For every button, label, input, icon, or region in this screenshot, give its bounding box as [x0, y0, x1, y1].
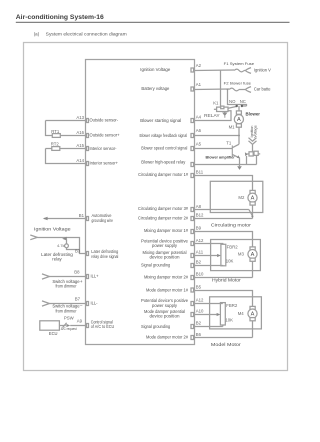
wire B5 to M4 [195, 291, 253, 307]
pin B8 [87, 275, 89, 279]
ignition voltage feed rotated [250, 125, 258, 137]
wire ignition to relay coil K1 [220, 71, 222, 108]
svg-text:ILL+: ILL+ [91, 274, 99, 279]
pin A15 [87, 147, 89, 151]
pin A4 [191, 119, 194, 123]
wire A2 to fuse F1 [195, 69, 235, 72]
svg-text:B8: B8 [74, 269, 80, 274]
hybrid motor box [211, 240, 261, 271]
svg-text:10K: 10K [225, 317, 233, 322]
svg-text:B6: B6 [196, 332, 202, 337]
svg-text:4.7k: 4.7k [57, 243, 65, 248]
wire A12 to pot top [195, 303, 223, 305]
connector to ignition [244, 70, 246, 72]
relay armature blade [228, 106, 237, 108]
pin B6 [191, 336, 194, 340]
svg-text:Blower amplifier: Blower amplifier [206, 155, 236, 160]
title rule [16, 21, 290, 23]
model motor box [210, 297, 262, 329]
title [16, 14, 127, 36]
svg-text:A6: A6 [196, 128, 202, 133]
wire A5 to base [195, 148, 233, 150]
fuse F2 [229, 88, 239, 91]
wire 4.7k to relay line [67, 248, 80, 250]
svg-text:A: A [251, 312, 255, 318]
svg-text:relay drive signal: relay drive signal [91, 254, 118, 259]
pin A1 [191, 87, 194, 91]
svg-text:K1: K1 [213, 101, 219, 106]
emitter to ground [239, 158, 241, 166]
wire ILL+ [49, 276, 85, 278]
svg-text:Interior sensor-: Interior sensor- [90, 146, 118, 151]
arrow on ignition wire [62, 237, 67, 241]
pin B1 [87, 217, 89, 221]
svg-text:10K: 10K [226, 258, 234, 263]
relay contact feed wire [228, 90, 247, 107]
pin B7 [87, 302, 89, 306]
svg-text:(a): (a) [34, 31, 40, 36]
svg-text:A: A [237, 117, 241, 123]
wire B9 to M3 [195, 232, 253, 247]
wire B11 to M2 [195, 176, 253, 191]
wire motor to transistor [238, 127, 240, 144]
svg-text:Voltage: Voltage [254, 125, 258, 137]
svg-text:power supply: power supply [152, 243, 178, 248]
svg-text:A9: A9 [77, 319, 83, 324]
svg-text:A8: A8 [196, 204, 202, 209]
svg-text:A16: A16 [76, 130, 84, 135]
motor M2 [250, 190, 255, 193]
pin B2 mode [191, 325, 194, 329]
svg-text:B12: B12 [196, 213, 204, 218]
wire to contact [252, 144, 254, 151]
wire A10 wiper [195, 314, 217, 316]
motor M3 [250, 247, 255, 250]
high-speed relay contact [247, 153, 260, 155]
wire A13 outside sensor [46, 120, 86, 122]
svg-text:Car batte: Car batte [254, 87, 271, 92]
later defrosting relay label [41, 252, 73, 262]
wire A12 to pot [195, 243, 224, 245]
potentiometer FBR2 mixing [221, 244, 226, 265]
wire M4 to B6 [252, 321, 254, 338]
pin A5 [191, 147, 194, 151]
contact arm arrow [245, 152, 248, 156]
circulating motor box [210, 181, 262, 212]
svg-text:B7: B7 [75, 296, 81, 301]
svg-text:A11: A11 [196, 249, 204, 254]
svg-text:M3: M3 [238, 252, 245, 257]
svg-text:Blower voltage feedback signal: Blower voltage feedback signal [140, 133, 188, 138]
svg-text:of A/C to ECU: of A/C to ECU [91, 324, 114, 329]
svg-text:PSW: PSW [64, 315, 75, 320]
svg-text:Circulating damper motor 3#: Circulating damper motor 3# [138, 206, 189, 211]
pin A6 [191, 134, 194, 138]
wire M2 to B12 [252, 205, 254, 218]
wire B6 [195, 337, 253, 339]
svg-text:Signal grounding: Signal grounding [141, 263, 171, 268]
svg-text:Circulating damper motor 2#: Circulating damper motor 2# [138, 216, 189, 221]
pin B3 [87, 252, 89, 256]
dimmer + source arrow [42, 274, 49, 279]
wire B12 [195, 218, 253, 220]
svg-text:Blower high-speed relay: Blower high-speed relay [141, 159, 186, 164]
svg-text:A14: A14 [76, 158, 84, 163]
svg-text:A4: A4 [196, 115, 202, 120]
svg-text:Ignition Voltage: Ignition Voltage [140, 67, 171, 72]
wire B2 to pot bottom [195, 265, 224, 267]
svg-text:device position: device position [150, 314, 181, 319]
svg-text:M2: M2 [238, 195, 245, 200]
blower motor M1 [238, 106, 240, 111]
svg-text:Mixing damper motor 1#: Mixing damper motor 1# [144, 228, 189, 233]
svg-text:ECU: ECU [49, 331, 58, 336]
svg-text:M4: M4 [238, 311, 245, 316]
fuse F1 [234, 69, 244, 72]
svg-text:Signal grounding: Signal grounding [141, 324, 171, 329]
svg-text:B2: B2 [196, 321, 202, 326]
ignition voltage source arrow [34, 227, 71, 232]
wire PSW to A9 [70, 325, 85, 327]
wire B1 ground [44, 218, 86, 220]
svg-text:RT2: RT2 [51, 142, 60, 147]
svg-text:RELAY: RELAY [204, 113, 220, 118]
pin A8 [191, 208, 194, 212]
wire ignition to later defrost [37, 238, 85, 254]
transistor T1 [226, 140, 232, 145]
contact NC [243, 105, 247, 107]
svg-text:ILL-: ILL- [91, 301, 99, 306]
svg-text:M1: M1 [229, 124, 236, 129]
svg-text:relay: relay [52, 257, 62, 262]
pin A12 [191, 242, 194, 246]
resistor RT1 [52, 134, 60, 138]
pin high-speed relay [191, 163, 194, 167]
svg-text:B3: B3 [75, 248, 81, 253]
svg-text:A12: A12 [196, 238, 204, 243]
svg-text:FBR2: FBR2 [226, 303, 238, 308]
wire B10 [195, 277, 253, 279]
svg-text:Outside sensor-: Outside sensor- [90, 118, 119, 123]
wire A15 interior sensor [46, 148, 86, 150]
svg-text:Blower speed control signal: Blower speed control signal [141, 146, 187, 151]
arrowheads down [249, 138, 257, 142]
wire B2 to pot bottom [195, 326, 223, 328]
thermistor RT1 loop wire [46, 121, 86, 136]
svg-text:from dimmer: from dimmer [56, 308, 77, 313]
pin A10 [191, 313, 194, 317]
pin B5 [191, 288, 194, 292]
outer diagram border [24, 43, 288, 371]
svg-text:device position: device position [150, 254, 181, 259]
svg-text:Air-conditioning System-16: Air-conditioning System-16 [16, 14, 104, 21]
relay plunger [221, 106, 224, 109]
wire A11 wiper [195, 255, 218, 257]
svg-text:A15: A15 [76, 143, 84, 148]
thermistor RT2 loop wire [46, 149, 86, 164]
svg-text:A5: A5 [196, 141, 202, 146]
pressure switch PSW [60, 325, 66, 327]
wire A8 with switch [195, 209, 249, 211]
wire A4 to coil [195, 111, 232, 121]
svg-text:Model Motor: Model Motor [211, 342, 241, 348]
wire M3 to B10 [252, 261, 254, 277]
svg-text:Mode damper motor 2#: Mode damper motor 2# [146, 335, 189, 340]
svg-text:RT1: RT1 [51, 129, 60, 134]
svg-text:+: + [80, 279, 83, 284]
svg-text:A12: A12 [196, 298, 204, 303]
wire A6 feedback [195, 135, 240, 137]
svg-text:B10: B10 [196, 272, 204, 277]
ground below coil [222, 113, 227, 117]
svg-text:Outside sensor+: Outside sensor+ [90, 133, 120, 138]
pin A12 mode [191, 302, 194, 306]
svg-text:NO: NO [229, 99, 236, 104]
node A1 contacts [227, 89, 229, 91]
svg-text:A13: A13 [76, 115, 84, 120]
svg-text:Mixing damper motor 2#: Mixing damper motor 2# [144, 275, 189, 280]
svg-text:Blower: Blower [246, 112, 261, 117]
pin A16 [87, 134, 89, 138]
svg-text:NC: NC [240, 99, 246, 104]
pin B9 [191, 230, 194, 234]
svg-text:T1: T1 [226, 140, 232, 145]
svg-text:Ignition Voltage: Ignition Voltage [34, 227, 71, 232]
svg-text:A1: A1 [196, 82, 202, 87]
ground arrow [237, 166, 242, 170]
resistor RT2 [52, 147, 60, 151]
pin A11 [191, 254, 194, 258]
svg-text:System electrical connection d: System electrical connection diagram [46, 31, 127, 36]
svg-text:B1: B1 [79, 213, 85, 218]
wire high-speed relay [195, 164, 257, 166]
motor M4 [250, 306, 255, 309]
resistor 4.7k [65, 244, 69, 248]
svg-text:F1 System Fuse: F1 System Fuse [224, 61, 255, 66]
svg-text:Circulating motor: Circulating motor [211, 223, 252, 228]
svg-text:B11: B11 [196, 169, 204, 174]
ECU box [40, 321, 60, 330]
pin B10 [191, 276, 194, 280]
svg-text:−: − [80, 303, 83, 308]
connector to battery [239, 89, 246, 91]
pin B11 [191, 174, 194, 178]
pin A14 [87, 162, 89, 166]
wire ILL- [49, 303, 85, 305]
pin B2 [191, 264, 194, 268]
svg-text:B5: B5 [196, 285, 202, 290]
svg-text:Hybrid Motor: Hybrid Motor [212, 278, 241, 284]
svg-text:A: A [251, 196, 255, 202]
svg-text:FBR2: FBR2 [227, 244, 239, 249]
svg-text:from dimmer: from dimmer [56, 284, 77, 289]
svg-text:Battery voltage: Battery voltage [141, 86, 170, 91]
svg-text:A2: A2 [196, 63, 202, 68]
svg-text:Ignition V: Ignition V [254, 67, 271, 72]
relay coil K1 [217, 107, 228, 111]
pin A2 [191, 68, 194, 72]
svg-text:A: A [251, 252, 255, 258]
svg-text:Interior sensor+: Interior sensor+ [90, 161, 119, 166]
svg-text:power supply: power supply [152, 303, 178, 308]
svg-text:Circulating damper motor 1#: Circulating damper motor 1# [138, 172, 189, 177]
pin A13 [87, 119, 89, 123]
pin A9 [87, 324, 89, 328]
svg-text:Blower starting signal: Blower starting signal [140, 118, 181, 123]
potentiometer FBR2 mode [220, 303, 225, 325]
wire A1 to fuse F2 [195, 88, 230, 91]
svg-text:grounding wire: grounding wire [92, 218, 114, 223]
contact NO [236, 104, 238, 107]
dimmer - source arrow [42, 301, 49, 306]
svg-text:F2 blower fuse: F2 blower fuse [224, 80, 252, 85]
svg-text:A10: A10 [196, 309, 204, 314]
pin B12 [191, 217, 194, 221]
svg-text:B9: B9 [196, 226, 202, 231]
svg-text:B2: B2 [196, 259, 202, 264]
ground arrow B1 [43, 217, 48, 220]
A/C control unit box [86, 60, 195, 345]
svg-text:Mode damper motor 1#: Mode damper motor 1# [146, 287, 189, 292]
